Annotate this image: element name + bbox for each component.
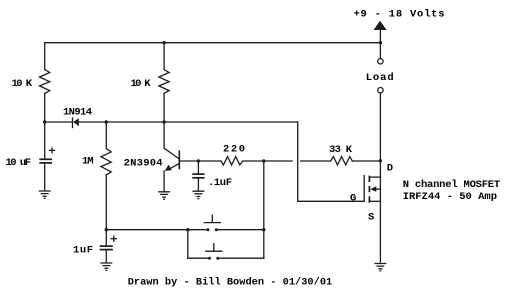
node junction drain [379,159,382,162]
wire diode row right segment [79,121,298,123]
diode D1 1N914 (cathode bar left, triangle pointing left) [72,118,74,128]
wire load terminal lower lead to drain [379,93,381,161]
wire capacitor C3 lower lead [197,178,199,191]
power arrow +9-18V [374,21,387,30]
mosfet Q2 drain connect [369,176,380,178]
mosfet Q2 source connect [369,200,380,202]
svg-text:2N3904: 2N3904 [124,157,163,169]
wire bottom row right segment [216,229,263,231]
wire parallel right vertical [263,230,265,259]
pushbutton S2 contacts [208,257,211,260]
ground G1 [39,191,50,198]
wire capacitor C2 lower lead [105,250,107,262]
wire capacitor C1 lower lead [44,164,46,191]
mosfet Q2 IRFZ44 gate bar [363,176,365,202]
wire lower row left segment [188,257,210,259]
transistor Q1 emitter with arrow [168,163,179,169]
wire capacitor C3 upper lead [197,161,199,173]
svg-text:N channel MOSFET: N channel MOSFET [403,179,501,191]
wire button column vertical [263,161,265,230]
wire 1M branch lower lead [105,175,107,230]
node junction bottom row / parallel left [186,228,189,231]
wire base lead row [179,160,221,162]
ground G3 (emitter) [159,192,170,199]
wire gate feed horizontal [298,200,365,202]
wire 33K left lead (after hop gap) [301,160,331,162]
node junction diode row / left branch [43,120,46,123]
wire load terminal upper lead [379,43,381,59]
node junction bottom row / button column [262,228,265,231]
node junction bottom row / 1M / C2 [105,228,108,231]
wire emitter lead to ground [163,171,165,192]
svg-text:10 K: 10 K [12,78,33,90]
wire left branch lower lead [44,93,46,122]
wire diode row left segment [45,121,73,123]
wire capacitor C2 upper lead [105,230,107,246]
node load terminal 1 (open circle) [378,59,383,64]
wire parallel left vertical [187,230,189,259]
node junction diode row / 1M branch [105,120,108,123]
node junction top rail / R2 branch [162,41,165,44]
pushbutton S2 actuator bar and stem [206,244,222,252]
wire bottom row left segment [106,229,208,231]
wire R4 right lead [243,160,292,162]
resistor R4 220 [221,157,243,165]
wire 1M branch upper lead [105,122,107,149]
capacitor C1 10uF plates [39,158,52,160]
svg-text:.1uF: .1uF [208,177,232,189]
pushbutton S1 actuator bar and stem [204,215,220,223]
svg-text:Drawn by - Bill Bowden - 01/30: Drawn by - Bill Bowden - 01/30/01 [128,277,333,289]
wire left branch upper lead [44,43,46,70]
mosfet Q2 channel dashes [368,176,370,203]
wire lower row right segment [218,257,264,259]
svg-text:10 K: 10 K [131,78,152,90]
svg-text:220: 220 [223,144,245,156]
svg-text:33 K: 33 K [329,144,353,156]
node junction diode row / R2 collector branch [162,120,165,123]
wire collector lead from node to transistor [164,122,179,159]
svg-text:S: S [368,211,374,223]
wire drain-source column [379,161,381,263]
ground G2 (C2) [101,263,112,270]
mosfet Q2 body arrow (pointing left) [374,188,381,190]
svg-text:+9 - 18 Volts: +9 - 18 Volts [354,8,445,20]
wire top supply rail [45,42,381,44]
node junction top rail / load column [379,41,382,44]
wire second branch upper lead [163,43,165,70]
wire second branch lower lead [163,93,165,122]
svg-text:10 uF: 10 uF [6,157,32,169]
transistor Q1 2N3904 base bar [178,150,180,169]
wire R5 right lead to drain [352,160,380,162]
ground G4 (C3) [193,191,204,198]
wire capacitor C1 upper lead [44,122,46,159]
svg-text:IRFZ44 - 50 Amp: IRFZ44 - 50 Amp [403,191,497,203]
resistor R1 10K [40,70,50,94]
svg-text:1uF: 1uF [73,245,93,257]
resistor R3 1M [101,149,111,175]
capacitor C3 .1uF plates [192,173,204,175]
wire gate feed vertical [297,122,299,201]
capacitor C2 1uF plates [100,245,113,247]
node junction base row / C3 [197,159,200,162]
node junction R4 lead / button column [262,159,265,162]
resistor R5 33 K [331,157,353,165]
capacitor C1 10uF polarity plus [50,148,55,153]
svg-text:G: G [350,192,356,204]
svg-text:1M: 1M [82,155,94,167]
capacitor C2 1uF polarity plus [111,236,116,241]
resistor R2 10K [159,70,169,94]
pushbutton S1 contacts [207,228,210,231]
svg-text:D: D [387,163,393,175]
wire arrow stem [379,30,381,43]
node load terminal 2 (open circle) [378,88,383,93]
svg-text:1N914: 1N914 [63,106,92,118]
svg-text:Load: Load [366,72,394,84]
ground G5 (source) [375,264,386,271]
